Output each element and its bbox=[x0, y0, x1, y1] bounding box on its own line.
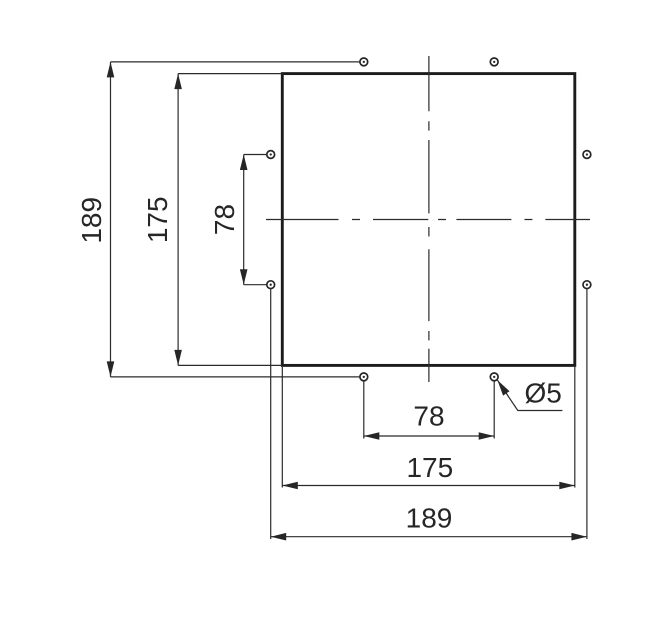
dim 78 vertical: extension lines bbox=[244, 155, 267, 285]
dim 175 horizontal: extension lines bbox=[282, 367, 575, 488]
dim 189 horizontal: dimension line bbox=[271, 536, 587, 538]
dim 189 vertical: extension lines bbox=[111, 62, 360, 377]
hole bottom-left bbox=[360, 373, 368, 381]
svg-text:175: 175 bbox=[406, 452, 453, 483]
svg-text:78: 78 bbox=[413, 401, 444, 432]
centerline horizontal bbox=[266, 219, 590, 221]
hole top-right bbox=[490, 58, 498, 66]
dim 189 horizontal: arrowheads bbox=[271, 533, 587, 541]
svg-text:175: 175 bbox=[142, 196, 173, 243]
hole right-bottom bbox=[583, 281, 591, 289]
dim 189 horizontal: extension lines bbox=[271, 289, 587, 539]
dim 175 horizontal: arrowheads bbox=[282, 482, 575, 490]
dim 189 vertical: dimension line bbox=[110, 62, 112, 377]
leader line for hole callout bbox=[497, 380, 562, 410]
dim 78 vertical: dimension line bbox=[243, 155, 245, 285]
hole top-left bbox=[360, 58, 368, 66]
dim 78 horizontal: arrowheads bbox=[364, 432, 494, 440]
dim 78 vertical: arrowheads bbox=[240, 155, 248, 285]
centerline vertical bbox=[428, 56, 430, 382]
leader arrowhead bbox=[497, 380, 509, 396]
dim 175 vertical: extension lines bbox=[178, 74, 282, 366]
dim 78 horizontal: extension lines bbox=[364, 382, 494, 439]
dim 175 horizontal: dimension line bbox=[282, 485, 575, 487]
dim 175 vertical: arrowheads bbox=[174, 74, 182, 366]
hole bottom-right bbox=[490, 373, 498, 381]
dim 189 vertical: arrowheads bbox=[107, 62, 115, 377]
svg-text:78: 78 bbox=[209, 204, 240, 235]
plate outline (square 175x175) bbox=[282, 74, 575, 366]
svg-text:Ø5: Ø5 bbox=[525, 377, 562, 408]
svg-text:189: 189 bbox=[406, 503, 453, 534]
svg-text:189: 189 bbox=[76, 197, 107, 244]
dim 78 horizontal: dimension line bbox=[364, 435, 494, 437]
hole left-bottom bbox=[267, 281, 275, 289]
hole right-top bbox=[583, 151, 591, 159]
dim 175 vertical: dimension line bbox=[177, 74, 179, 366]
hole left-top bbox=[267, 151, 275, 159]
